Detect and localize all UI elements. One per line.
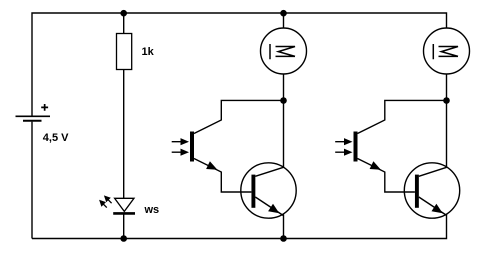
svg-text:ws: ws: [144, 204, 160, 216]
svg-text:4,5 V: 4,5 V: [43, 132, 69, 144]
svg-text:1k: 1k: [142, 46, 155, 58]
